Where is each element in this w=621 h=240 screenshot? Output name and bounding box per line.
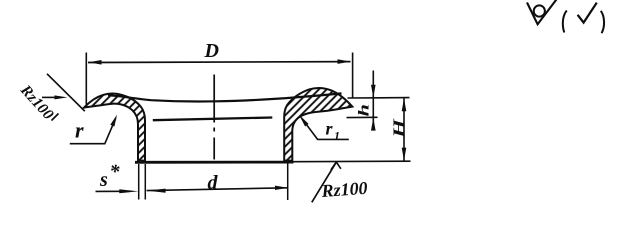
svg-text:h: h (356, 104, 373, 116)
Rz100 roughness mark upper-left: leader (47, 74, 85, 111)
open parenthesis (563, 11, 567, 33)
radius r1 leader (302, 118, 349, 139)
bottom rim line (135, 161, 294, 164)
inner far-side line (153, 118, 272, 121)
svg-text:Rz100: Rz100 (16, 81, 57, 123)
svg-text:1: 1 (334, 129, 340, 143)
svg-text:d: d (208, 172, 219, 194)
svg-text:s: s (99, 169, 108, 191)
dimension h: dimension line and outside arrows (372, 71, 374, 130)
svg-text:Rz100: Rz100 (320, 178, 368, 201)
bottom extension line to H (294, 160, 411, 163)
radius r leader (70, 118, 116, 144)
svg-text:r: r (326, 119, 334, 139)
surface finish symbol top-right (check with circle) (527, 0, 557, 24)
vertical centerline (213, 75, 215, 160)
dimension s*: extension lines (138, 164, 140, 200)
svg-text:*: * (110, 161, 121, 183)
Rz100 upper-left: tail dash (52, 114, 59, 121)
svg-text:H: H (391, 118, 408, 139)
dimension D: extension lines (85, 53, 87, 107)
dimension H: dimension line with arrows (403, 98, 405, 160)
symbol circle (534, 5, 545, 16)
svg-text:r: r (75, 118, 84, 143)
dimension d: dimension line with arrows (147, 188, 288, 191)
Rz100 upper-left: arrow branch (42, 96, 56, 98)
Rz100 roughness mark lower-right: leader with open arrow (312, 162, 337, 202)
svg-text:D: D (204, 40, 219, 62)
left curled-edge section (hatched) (84, 94, 145, 161)
dimension D: dimension line (88, 61, 351, 64)
top silhouette line (108, 93, 342, 101)
check mark (578, 3, 597, 23)
close parenthesis (601, 11, 604, 33)
dimension s*: left arrow (96, 190, 126, 192)
right curled-edge section (hatched) (284, 88, 352, 161)
dimension d: extension line right (287, 164, 289, 201)
dimension h: extension lines (348, 97, 410, 99)
